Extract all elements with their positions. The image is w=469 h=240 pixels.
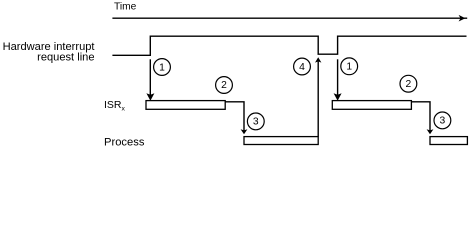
wire: hardware interrupt request line waveform xyxy=(112,36,466,55)
svg-text:2: 2 xyxy=(221,80,227,91)
wire: down arrow from first rising edge to ISR bar 1 (step 1, left) xyxy=(146,59,154,101)
node circle 1 (left) xyxy=(154,59,171,76)
node circle 4 xyxy=(294,58,311,75)
svg-text:3: 3 xyxy=(440,116,446,127)
process bar 2 xyxy=(430,137,467,145)
svg-text:2: 2 xyxy=(406,79,412,90)
time axis arrow xyxy=(112,15,467,22)
svg-text:1: 1 xyxy=(159,62,165,73)
node circle 3 (right) xyxy=(434,112,451,129)
wire: connector from ISR bar 2 down to process bar 2 (step 3, right) xyxy=(411,102,433,134)
svg-text:ISRx: ISRx xyxy=(104,99,126,112)
node circle 1 (right) xyxy=(341,58,358,75)
svg-text:4: 4 xyxy=(299,62,305,73)
ISR bar 2 xyxy=(332,101,411,110)
node circle 3 (left) xyxy=(247,113,264,130)
svg-text:Time: Time xyxy=(114,2,137,13)
svg-text:3: 3 xyxy=(253,117,259,128)
node circle 2 (right) xyxy=(400,75,417,92)
svg-text:Process: Process xyxy=(104,136,145,148)
ISR bar 1 xyxy=(146,101,225,110)
svg-text:1: 1 xyxy=(346,62,352,73)
wire: connector from ISR bar 1 down to process bar 1 (step 3, left) xyxy=(225,102,247,134)
svg-text:Hardware interruptrequest line: Hardware interruptrequest line xyxy=(3,41,95,63)
wire: vertical from process bar 1 up to request line with up arrow (step 4) xyxy=(315,57,321,136)
node circle 2 (left) xyxy=(216,77,233,94)
process bar 1 xyxy=(244,137,318,145)
wire: down arrow from second rising edge to ISR bar 2 (step 1, right) xyxy=(334,59,342,101)
